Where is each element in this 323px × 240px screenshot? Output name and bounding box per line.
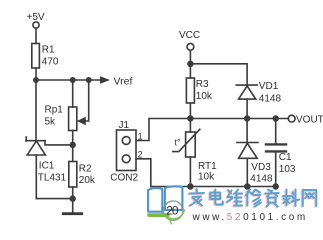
wire RT1 to bottom rail (189, 157, 191, 187)
svg-text:CON2: CON2 (110, 173, 138, 184)
R2 label 20k (79, 164, 96, 187)
svg-text:R3: R3 (196, 79, 209, 90)
J1 pin 2 circle (122, 155, 130, 163)
wire rail to VD3 (246, 119, 248, 143)
svg-text:RT1: RT1 (198, 161, 217, 172)
wire J1 pin1 to VOUT rail (136, 119, 190, 141)
Vref arrow (100, 76, 110, 83)
+5V terminal (33, 22, 39, 28)
svg-text:IC1: IC1 (39, 161, 55, 172)
Rp1 wiper arrow (77, 117, 86, 126)
svg-text:5k: 5k (45, 117, 57, 128)
svg-text:VOUT: VOUT (296, 115, 323, 126)
svg-text:t°: t° (175, 138, 182, 148)
watermark (147, 186, 316, 224)
wire R3 to VOUT rail (189, 103, 191, 119)
svg-text:TL431: TL431 (38, 173, 67, 184)
wire Vref node to TL431 cathode (35, 80, 37, 141)
wire feeder to VD1 (190, 64, 247, 85)
svg-text:470: 470 (42, 57, 59, 68)
ground (63, 199, 81, 214)
diode VD1 (236, 85, 257, 99)
svg-text:Rp1: Rp1 (45, 105, 64, 116)
wire rail to C1 (275, 119, 277, 144)
svg-text:VD1: VD1 (259, 81, 279, 92)
junction R3/RT1 (187, 115, 193, 121)
RT1 label 10k (198, 161, 217, 183)
+5V label (27, 12, 45, 23)
resistor R1 (32, 44, 40, 69)
svg-text:Vref: Vref (114, 76, 133, 88)
junction C1 top (273, 115, 279, 121)
VCC terminal (187, 43, 194, 50)
wire R2 to ground node (72, 187, 74, 199)
VOUT rail wire (190, 118, 288, 120)
svg-text:R2: R2 (79, 164, 92, 175)
t label (175, 138, 182, 148)
svg-text:10k: 10k (198, 172, 215, 183)
svg-text:C1: C1 (279, 152, 292, 163)
wire C1 to bottom rail (275, 153, 277, 187)
junction ground node (70, 195, 76, 201)
J1 pin 1 circle (122, 137, 130, 145)
pin number 2 (138, 150, 143, 160)
wire +5V terminal to R1 (35, 28, 37, 43)
diode VD3 (237, 143, 258, 159)
potentiometer Rp1 (69, 107, 77, 131)
resistor R3 (186, 78, 194, 103)
wire TL431 anode down (35, 155, 37, 199)
svg-text:10k: 10k (196, 91, 213, 102)
connector J1 body (117, 130, 137, 171)
Rp1 label 5k (45, 105, 64, 128)
VOUT label (296, 115, 323, 126)
wire node to R2 (72, 145, 74, 162)
junction wiper drop (86, 77, 92, 83)
R3 label 10k (196, 79, 213, 102)
VOUT terminal (288, 115, 295, 122)
junction Rp1 top (70, 77, 76, 83)
thermistor RT1 (173, 129, 200, 157)
wire TL431 anode to ground node (36, 198, 72, 200)
capacitor C1 (266, 144, 286, 151)
svg-text:VCC: VCC (179, 30, 200, 41)
wire rail to RT1 (189, 119, 191, 133)
wire wiper drop (85, 80, 89, 121)
wire VD1 to VOUT rail (246, 99, 248, 118)
svg-text:20k: 20k (79, 175, 96, 186)
junction VD3 bottom (244, 183, 250, 189)
Vref label (114, 76, 133, 88)
resistor R2 (69, 162, 77, 188)
wire VCC to node (189, 50, 191, 78)
svg-text:4148: 4148 (259, 94, 282, 105)
junction Rp1/R2/ref (70, 142, 76, 148)
svg-text:20: 20 (166, 204, 179, 218)
svg-text:VD3: VD3 (251, 162, 271, 173)
svg-text:www.520101.com: www.520101.com (192, 212, 308, 223)
wire Rp1 to R2 node (72, 131, 74, 145)
junction R1/Vref (33, 77, 39, 83)
IC1 label TL431 (38, 161, 67, 184)
Vref rail wire (36, 79, 101, 81)
wire Vref rail to Rp1 (72, 80, 74, 107)
VCC label (179, 30, 200, 41)
svg-text:4148: 4148 (250, 174, 273, 185)
J1 label (119, 120, 130, 131)
svg-text:103: 103 (279, 164, 296, 175)
junction RT1 bottom (187, 183, 193, 189)
VD3 label 4148 (250, 162, 273, 185)
wire R1 to Vref rail (35, 68, 37, 80)
wire VD3 to bottom rail (246, 158, 248, 186)
CON2 label (110, 173, 138, 184)
junction VCC feeder (187, 61, 193, 67)
op-amp IC1 TL431 (26, 137, 73, 155)
pin number 1 (138, 132, 143, 142)
VD1 label 4148 (259, 81, 282, 105)
C1 label 103 (279, 152, 296, 175)
wire J1 pin2 to bottom rail (136, 159, 151, 187)
junction VD1/VD3 (244, 115, 250, 121)
svg-text:R1: R1 (42, 45, 55, 56)
junction C1 bottom (273, 183, 279, 189)
R1 label 470 (42, 45, 59, 68)
bottom rail wire (151, 186, 276, 188)
